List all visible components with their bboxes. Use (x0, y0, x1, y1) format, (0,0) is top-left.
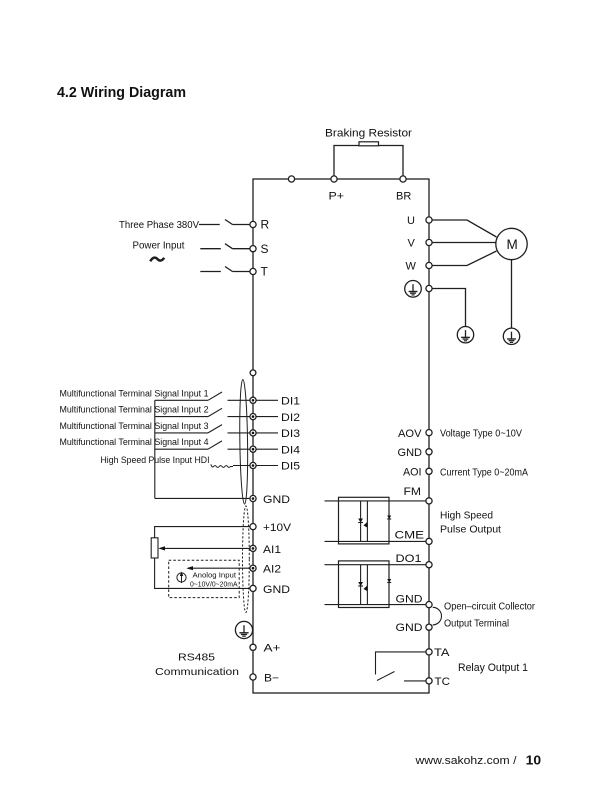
wire: +10V to potentiometer (155, 527, 250, 538)
svg-text:CME: CME (395, 530, 425, 542)
svg-text:R: R (261, 218, 270, 232)
optocoupler U1 internals (358, 501, 391, 541)
terminal GND (DO) (426, 602, 432, 608)
wire: TC contact (404, 680, 426, 682)
optocoupler U2 box (339, 561, 390, 608)
switch blade relay (377, 672, 395, 681)
terminal B- (250, 674, 256, 680)
svg-text:TC: TC (435, 676, 451, 688)
terminal AOV (426, 430, 432, 436)
wire: T contact (233, 271, 250, 273)
terminal GND (digital) (250, 495, 256, 501)
svg-text:GND: GND (263, 584, 290, 596)
arrow: AI2 arrowhead (186, 566, 193, 570)
svg-text:U: U (407, 215, 415, 227)
node: junction on top bus (288, 176, 294, 182)
terminal DI2 (250, 414, 256, 420)
resistor: braking resistor body (359, 142, 379, 146)
node P+ (331, 176, 337, 182)
terminal DI5 (250, 462, 256, 468)
switch blade T (225, 267, 233, 272)
wire: main bus rectangle (left bus, top bus, right bus, bottom bus) (253, 179, 429, 693)
terminal R (250, 221, 256, 227)
svg-text:Three Phase 380V: Three Phase 380V (119, 220, 199, 231)
shield: analog cable shield ellipse (dashed) (243, 506, 250, 613)
box: analog input dashed box (169, 560, 240, 597)
svg-text:DI5: DI5 (281, 461, 300, 473)
wire: DI2 contact (228, 416, 250, 418)
svg-text:Multifunctional Terminal Signa: Multifunctional Terminal Signal Input 3 (60, 421, 209, 431)
ground: motor frame earth (503, 328, 519, 344)
wire: DI feeder vertical (154, 400, 156, 498)
svg-text:4.2 Wiring Diagram: 4.2 Wiring Diagram (57, 84, 186, 101)
terminal GND (second) (426, 624, 432, 630)
optocoupler U1 box (339, 497, 390, 544)
svg-text:Multifunctional Terminal Signa: Multifunctional Terminal Signal Input 1 (60, 388, 209, 398)
terminal PE (inverter earth) (426, 285, 432, 291)
switch blade DI4 (208, 441, 222, 449)
wire: opto2 top line to DO1 (325, 564, 426, 566)
terminal AI2 (250, 565, 256, 571)
svg-text:Open–circuit Collector: Open–circuit Collector (444, 601, 535, 612)
svg-text:10: 10 (526, 753, 542, 767)
svg-text:Current Type 0~20mA: Current Type 0~20mA (440, 467, 528, 478)
terminal DI4 (250, 446, 256, 452)
svg-text:DI2: DI2 (281, 412, 300, 424)
svg-text:S: S (261, 242, 269, 256)
svg-text:A+: A+ (264, 643, 281, 655)
wire: GND-GND bracket (433, 607, 442, 625)
wire: DI3 contact (228, 432, 250, 434)
wire: DI1 label stub (256, 399, 278, 401)
terminal A+ (250, 644, 256, 650)
terminal W (426, 262, 432, 268)
braking resistor loop wire (334, 146, 403, 180)
svg-text:Pulse Output: Pulse Output (440, 524, 501, 535)
svg-text:0~10V/0~20mA: 0~10V/0~20mA (190, 579, 238, 588)
wire: U to motor (432, 220, 496, 237)
svg-text:FM: FM (404, 486, 422, 498)
terminal FM (426, 498, 432, 504)
svg-text:V: V (408, 238, 416, 250)
wire: S contact (233, 248, 250, 250)
terminal T (250, 268, 256, 274)
terminal AI1 (250, 545, 256, 551)
wire: DI4 feed (155, 448, 208, 450)
wire: DI5 contact (233, 465, 250, 467)
svg-text:+10V: +10V (263, 522, 292, 534)
svg-text:M: M (507, 237, 518, 252)
wire: R contact (233, 224, 250, 226)
wire: DI1 contact (228, 399, 250, 401)
motor M (496, 228, 527, 259)
svg-text:Output Terminal: Output Terminal (444, 618, 509, 629)
terminal TA (426, 649, 432, 655)
wire: W to motor (432, 251, 496, 266)
terminal +10V (250, 524, 256, 530)
svg-text:P+: P+ (329, 191, 345, 203)
svg-text:Communication: Communication (155, 667, 239, 678)
source: analog current-source symbol (177, 572, 186, 584)
wire: feeder to GND terminal (155, 497, 250, 499)
wire: opto2 bottom line to GND (325, 604, 426, 606)
svg-text:RS485: RS485 (178, 653, 215, 664)
svg-text:AOI: AOI (403, 467, 422, 479)
svg-text:GND: GND (396, 593, 423, 605)
wire: potentiometer to GND (155, 558, 250, 588)
svg-text:Multifunctional Terminal Signa: Multifunctional Terminal Signal Input 2 (60, 405, 209, 415)
terminal GND (analog) (250, 585, 256, 591)
switch blade DI2 (208, 408, 222, 416)
terminal TC (426, 678, 432, 684)
wire: DI5 label stub (256, 465, 278, 467)
ground: external earth (457, 327, 473, 343)
svg-text:AOV: AOV (398, 428, 422, 440)
svg-text:Voltage Type 0~10V: Voltage Type 0~10V (440, 428, 522, 439)
svg-text:GND: GND (263, 494, 290, 506)
svg-text:T: T (261, 265, 269, 279)
wire: opto1 top line to FM (325, 500, 426, 502)
terminal S (250, 246, 256, 252)
wire: TA relay arm (376, 652, 426, 675)
terminal DI1 (250, 397, 256, 403)
wire: V to motor (432, 242, 496, 244)
svg-text:www.sakohz.com /: www.sakohz.com / (414, 755, 517, 767)
wire: opto1 bottom line to CME (325, 540, 426, 542)
svg-text:DI4: DI4 (281, 444, 300, 456)
wire: S feed (200, 248, 221, 250)
switch blade R (225, 220, 233, 225)
wire: T feed (200, 271, 221, 273)
svg-text:BR: BR (396, 191, 411, 203)
terminal GND (426, 449, 432, 455)
svg-text:Power Input: Power Input (133, 241, 185, 252)
wire: DI4 label stub (256, 448, 278, 450)
svg-text:Relay Output 1: Relay Output 1 (458, 662, 528, 674)
svg-text:DI1: DI1 (281, 396, 300, 408)
svg-text:Anolog Input: Anolog Input (193, 571, 237, 580)
terminal DI3 (250, 430, 256, 436)
wire: motor to ground (511, 260, 513, 328)
wire: PE terminal to earth (432, 289, 465, 327)
wire: DI3 feed (155, 432, 208, 434)
svg-text:TA: TA (434, 647, 450, 659)
svg-text:AI2: AI2 (263, 564, 281, 576)
arrow: wiper arrowhead (158, 546, 165, 550)
wire: DI4 contact (228, 448, 250, 450)
wire: DI1 feed (155, 399, 208, 401)
svg-text:GND: GND (398, 447, 423, 459)
ground: PE symbol beside terminal (405, 281, 422, 298)
svg-text:High Speed Pulse Input HDI: High Speed Pulse Input HDI (101, 455, 210, 465)
wire: AI2 input line (188, 567, 250, 569)
svg-text:DO1: DO1 (396, 553, 422, 565)
wire: DI2 feed (155, 416, 208, 418)
switch blade DI3 (208, 425, 222, 433)
potentiometer body (151, 538, 158, 558)
wire: DI2 label stub (256, 416, 278, 418)
svg-text:DI3: DI3 (281, 428, 300, 440)
svg-text:W: W (406, 261, 417, 273)
node: shield top junction on left bus (250, 370, 256, 376)
switch blade DI1 (208, 392, 222, 400)
svg-text:Multifunctional Terminal Signa: Multifunctional Terminal Signal Input 4 (60, 437, 209, 447)
svg-text:High Speed: High Speed (440, 510, 493, 521)
svg-text:B−: B− (264, 672, 279, 684)
label: ~ (AC symbol) (150, 258, 164, 262)
wire: HDI coil squiggle (211, 464, 233, 467)
wire: R feed (199, 224, 220, 226)
svg-text:AI1: AI1 (263, 544, 281, 556)
shield: cable shield ellipse (239, 379, 248, 504)
wire: AI1 wiper line (160, 547, 250, 549)
terminal AOI (426, 468, 432, 474)
terminal CME (426, 538, 432, 544)
switch blade S (225, 244, 233, 249)
terminal V (426, 239, 432, 245)
terminal U (426, 217, 432, 223)
node BR (400, 176, 406, 182)
optocoupler U2 internals (358, 565, 391, 605)
svg-text:GND: GND (396, 622, 423, 634)
terminal DO1 (426, 562, 432, 568)
svg-text:Braking Resistor: Braking Resistor (325, 128, 413, 140)
wire: DI3 label stub (256, 432, 278, 434)
ground: shield earth (235, 621, 252, 638)
